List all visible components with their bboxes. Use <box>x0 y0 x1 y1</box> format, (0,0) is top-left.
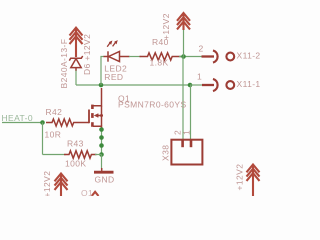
svg-text:X11-1: X11-1 <box>237 79 261 89</box>
svg-text:X11-2: X11-2 <box>237 51 261 61</box>
supply +12V2 arrow (bottom-left) <box>55 174 68 197</box>
wire: junction down <box>42 123 44 155</box>
connector X11-1 pin <box>202 79 234 91</box>
connector X11-2 pin <box>202 50 235 62</box>
svg-text:PSMN7R0-60YS: PSMN7R0-60YS <box>118 100 187 110</box>
svg-text:+12V2: +12V2 <box>235 164 245 191</box>
partial supply arrow (bottom-center, cut) <box>92 192 99 196</box>
junction node +12V2 <box>181 54 186 59</box>
connector X38 <box>171 140 202 165</box>
supply +12V2 arrow (top-left) <box>70 28 83 57</box>
diode D6 B240A-13-F (schottky, vertical) <box>69 56 82 71</box>
junction at LED/drain <box>99 83 104 88</box>
svg-text:10R: 10R <box>45 130 62 140</box>
wire: junction to X11-1 pin <box>190 84 203 86</box>
svg-text:1: 1 <box>182 130 192 135</box>
wire: junction up to supply <box>183 29 185 57</box>
wire: gate lead <box>79 122 89 124</box>
wire: +12V2 down to X38 pin 2 <box>182 57 184 142</box>
wire: to R43 <box>43 154 67 156</box>
svg-text:D6 +12V2: D6 +12V2 <box>82 34 92 75</box>
transistor Q1 PSMN7R0-60YS <box>89 88 103 131</box>
svg-text:2: 2 <box>199 44 204 54</box>
junction dots source column <box>99 127 104 132</box>
wire: horizontal net y=85 <box>76 84 190 86</box>
svg-text:+12V2: +12V2 <box>161 13 171 40</box>
svg-text:Q1: Q1 <box>81 188 93 196</box>
LED LED2 RED <box>104 41 130 62</box>
wire: R40 to junction <box>179 56 202 58</box>
wire: net down to X38 pin 1 <box>190 85 192 141</box>
svg-text:HEAT-0: HEAT-0 <box>2 113 34 123</box>
wire: D6 anode down <box>75 71 77 86</box>
svg-text:GND: GND <box>95 175 115 185</box>
junction X11-1 <box>188 83 193 88</box>
svg-text:+12V2: +12V2 <box>42 171 52 196</box>
svg-text:1: 1 <box>197 72 202 82</box>
junction HEAT-0 <box>40 120 45 125</box>
svg-text:RED: RED <box>104 72 123 82</box>
supply +12V2 arrow (bottom-right) <box>247 165 260 197</box>
svg-text:R42: R42 <box>46 107 63 117</box>
ground <box>94 168 114 172</box>
svg-text:1.8K: 1.8K <box>150 58 169 68</box>
wire: down to GND <box>101 155 103 169</box>
svg-text:B240A-13-F: B240A-13-F <box>59 39 69 89</box>
svg-text:100K: 100K <box>65 159 86 169</box>
svg-text:R43: R43 <box>67 139 84 149</box>
wire: source column <box>101 129 103 155</box>
resistor R43 <box>64 151 97 158</box>
wire: LED cathode riser <box>101 57 104 86</box>
svg-text:X38: X38 <box>161 145 171 161</box>
wire: LED anode to R40 <box>129 56 141 58</box>
resistor R40 <box>140 53 182 60</box>
wire: HEAT-0 net <box>2 122 44 124</box>
supply +12V2 arrow (top-right) <box>177 13 190 30</box>
wire: R43 to source column <box>95 154 102 156</box>
resistor R42 <box>46 119 79 126</box>
